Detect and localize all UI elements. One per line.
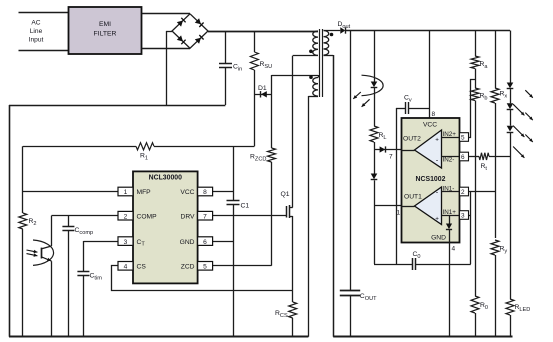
svg-text:NCS1002: NCS1002: [416, 176, 446, 183]
svg-text:8: 8: [203, 189, 207, 196]
svg-text:+: +: [435, 137, 439, 144]
op-amp U2B (OUT1): [402, 187, 460, 225]
wire IN1- node: [470, 192, 472, 265]
svg-text:4: 4: [452, 246, 456, 253]
svg-text:7: 7: [203, 213, 207, 220]
svg-text:5: 5: [461, 135, 465, 142]
svg-text:AC: AC: [31, 20, 40, 27]
svg-text:OUT2: OUT2: [403, 136, 421, 143]
LED string: [507, 31, 514, 300]
resistor R0: [471, 296, 488, 337]
op-amp U2A (OUT2): [402, 130, 460, 168]
IC U1 NCL30000 body: [133, 171, 198, 283]
resistor RLED: [506, 299, 530, 337]
node AC Line Input label: [29, 20, 44, 44]
optocoupler LED: [353, 31, 383, 107]
svg-text:DRV: DRV: [181, 213, 196, 220]
svg-text:3: 3: [124, 239, 128, 246]
transformer T1 secondary winding: [324, 31, 334, 56]
wire secondary return: [333, 55, 335, 337]
wire pin4 GND: [450, 243, 456, 337]
wire aux return: [308, 96, 310, 337]
svg-text:2: 2: [461, 189, 465, 196]
svg-text:VCC: VCC: [180, 189, 194, 196]
wire pin6 GND: [213, 241, 233, 243]
svg-text:7: 7: [389, 154, 393, 161]
capacitor Ctim: [77, 241, 102, 337]
transistor Q1: [281, 191, 293, 218]
diode D1: [254, 85, 271, 98]
capacitor Cv: [396, 95, 429, 115]
svg-text:6: 6: [203, 239, 207, 246]
capacitor Cin: [219, 31, 242, 105]
wire pin3 CT: [83, 241, 118, 243]
IC U2 NCS1002 body: [402, 118, 460, 243]
diode internal GND clamp: [446, 215, 452, 243]
wire VCC feed down: [233, 146, 235, 200]
svg-text:CS: CS: [137, 263, 147, 270]
wire primary ground rail: [9, 336, 308, 338]
resistor Ra: [471, 31, 488, 89]
wire pin4 CS: [112, 266, 293, 291]
svg-text:OUT1: OUT1: [404, 194, 422, 201]
svg-text:2: 2: [124, 213, 128, 220]
transformer T1 aux dot: [309, 75, 313, 79]
resistor Rx: [491, 31, 507, 239]
wire left wall: [9, 105, 11, 337]
transformer T1 primary dot: [309, 50, 313, 54]
wire pin2 to Ry: [469, 191, 496, 193]
wire C1 to ground rail: [233, 204, 235, 336]
U1 pin names: [137, 189, 196, 270]
resistor RCS: [275, 291, 297, 337]
wire pin3 stub: [469, 215, 471, 217]
wire output ground rail: [333, 336, 512, 338]
transformer T1 primary winding: [208, 31, 318, 56]
svg-text:IN2-: IN2-: [443, 157, 455, 164]
wire Q1 drain: [292, 56, 294, 208]
svg-text:IN1-: IN1-: [443, 186, 455, 193]
svg-text:Input: Input: [29, 37, 44, 44]
svg-text:8: 8: [432, 111, 436, 118]
diode Dout: [338, 21, 351, 34]
wire EMI to bridge bottom: [142, 48, 191, 50]
svg-text:C1: C1: [241, 203, 250, 210]
diode OUT2 series: [380, 146, 386, 152]
transformer T1 secondary dot: [330, 33, 334, 37]
resistor R2: [19, 146, 37, 336]
resistor Ry: [491, 240, 507, 337]
svg-text:+: +: [435, 216, 439, 223]
wire AC line bottom: [19, 50, 69, 52]
wire DC top rail: [208, 31, 318, 33]
capacitor C1: [227, 201, 250, 210]
transformer T1 aux winding: [272, 75, 319, 97]
wire pin2 COMP: [52, 215, 119, 217]
diode OR-ing: [371, 150, 378, 206]
wire Cv down: [396, 108, 398, 264]
wire bridge left corner down: [166, 31, 172, 105]
wire OUT2 pin7: [374, 150, 402, 161]
wire VCC pin8 feed: [430, 31, 436, 119]
resistor R1: [23, 143, 255, 162]
svg-text:EMI: EMI: [99, 21, 111, 28]
svg-text:5: 5: [203, 264, 207, 271]
svg-text:NCL30000: NCL30000: [149, 175, 182, 182]
svg-text:1: 1: [124, 189, 128, 196]
svg-text:6: 6: [461, 154, 465, 161]
wire pin5 ZCD: [213, 265, 272, 267]
diode bridge rectifier: [172, 14, 208, 48]
svg-text:IN1+: IN1+: [443, 209, 457, 216]
resistor RSU: [250, 31, 272, 146]
svg-text:ZCD: ZCD: [181, 263, 195, 270]
wire pin1 MFP: [23, 191, 118, 193]
resistor RL: [370, 88, 387, 150]
U2 input labels: [443, 131, 457, 216]
wire EMI to bridge top: [142, 13, 191, 15]
capacitor C0: [374, 251, 471, 270]
resistor RZCD: [250, 75, 276, 266]
EMI filter block: [69, 7, 142, 54]
U1 pin number boxes: [118, 187, 213, 270]
transformer T1 core: [320, 29, 323, 97]
svg-text:GND: GND: [431, 235, 446, 242]
svg-text:3: 3: [461, 213, 465, 220]
wire OUT1 pin1: [374, 206, 402, 217]
svg-text:IN2+: IN2+: [443, 131, 457, 138]
resistor Rb: [471, 88, 488, 156]
svg-text:GND: GND: [180, 239, 195, 246]
capacitor COUT: [340, 31, 377, 337]
wire OUT1 to C0: [374, 206, 376, 265]
svg-text:VCC: VCC: [423, 122, 437, 129]
svg-text:Line: Line: [30, 28, 43, 35]
optocoupler phototransistor: [27, 216, 54, 337]
wire AC line top: [19, 12, 69, 14]
wire output top rail: [324, 30, 511, 32]
capacitor Ccomp: [62, 216, 93, 337]
svg-text:4: 4: [124, 264, 128, 271]
wire Rb to R0: [475, 156, 477, 296]
LED light arrows: [513, 90, 533, 158]
svg-text:MFP: MFP: [137, 189, 152, 196]
wire Ra-Rb tap to pin5: [469, 80, 476, 138]
wire pin7 DRV: [213, 215, 287, 217]
svg-text:COMP: COMP: [137, 213, 158, 220]
wire input bottom rail: [9, 105, 225, 107]
svg-text:FILTER: FILTER: [94, 31, 117, 38]
svg-text:D1: D1: [258, 85, 267, 92]
U2 pin number boxes: [460, 133, 469, 220]
wire pin8 VCC: [213, 191, 233, 193]
resistor Rt: [469, 153, 511, 172]
wire Q1 source: [292, 216, 294, 291]
svg-text:Q1: Q1: [281, 191, 290, 198]
